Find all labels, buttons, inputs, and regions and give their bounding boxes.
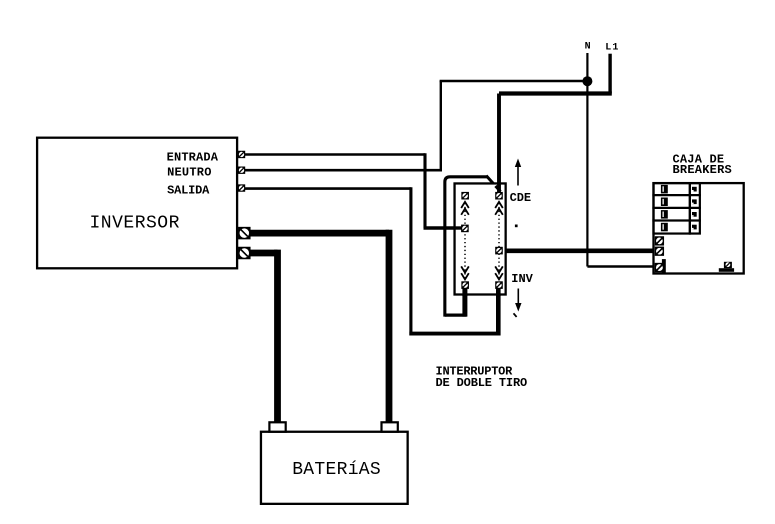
- svg-text:CDE: CDE: [510, 191, 531, 205]
- svg-text:SALIDA: SALIDA: [167, 184, 210, 198]
- svg-text:N: N: [585, 42, 591, 53]
- svg-text:ENTRADA: ENTRADA: [167, 150, 219, 164]
- svg-text:BREAKERS: BREAKERS: [673, 163, 732, 177]
- svg-text:BATERíAS: BATERíAS: [292, 460, 381, 480]
- svg-text:INVERSOR: INVERSOR: [90, 214, 180, 234]
- svg-text:NEUTRO: NEUTRO: [167, 166, 212, 180]
- svg-text:INV: INV: [511, 272, 533, 286]
- svg-text:DE DOBLE TIRO: DE DOBLE TIRO: [436, 376, 528, 390]
- svg-text:L1: L1: [605, 42, 619, 53]
